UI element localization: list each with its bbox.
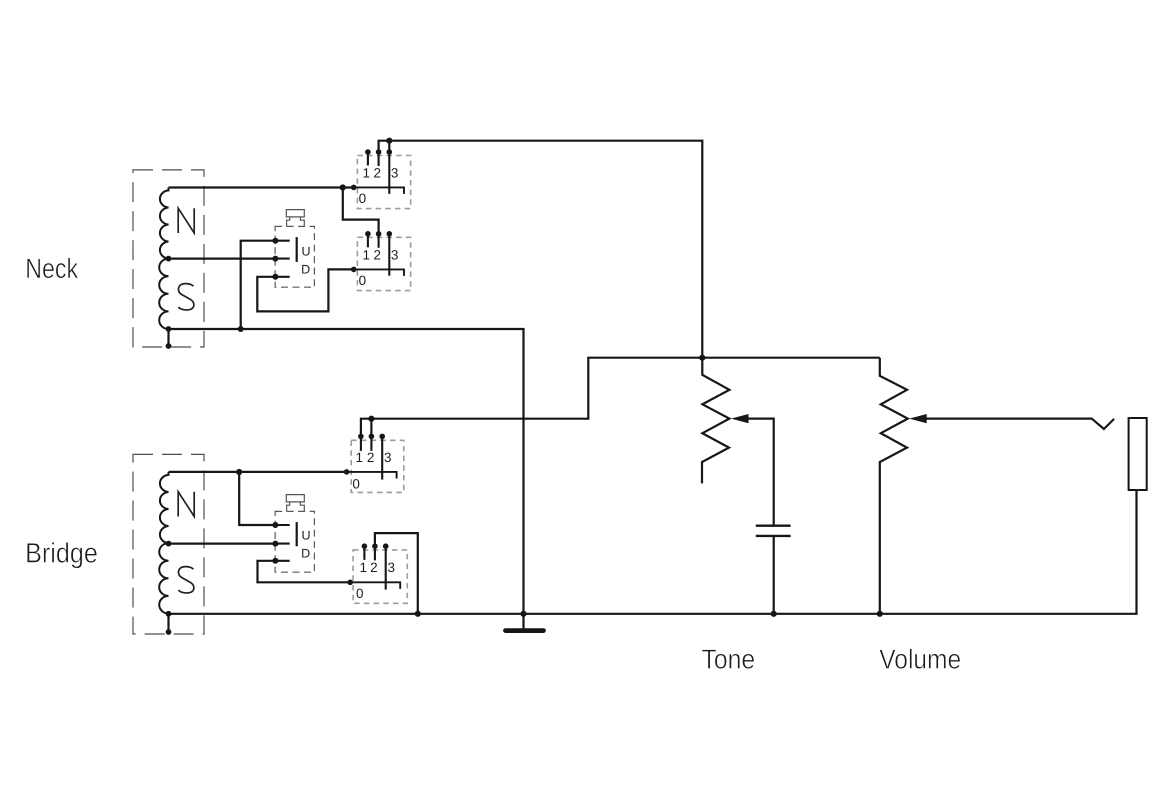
svg-text:D: D <box>301 262 310 276</box>
wire: branch from neck top junction down to switch S2 pin 2 <box>343 188 379 234</box>
svg-text:Volume: Volume <box>879 644 961 675</box>
node: junction on neck bottom rail <box>238 326 244 332</box>
potentiometer RV1 Tone (resistive element) <box>702 358 729 484</box>
node: switch S1 common terminal <box>351 185 357 191</box>
node: tone/volume signal junction <box>699 355 705 361</box>
switch S1 pin 1 <box>367 152 369 166</box>
svg-text:2: 2 <box>373 166 381 181</box>
svg-text:1: 1 <box>363 247 371 262</box>
wire: switch S4 pin 2 riser to ground bus <box>375 533 418 614</box>
switch S4 (bridge, lower 3-position) dashed enclosure <box>353 550 407 603</box>
svg-text:1: 1 <box>359 560 367 575</box>
switch S4 pin 1 <box>363 546 365 560</box>
svg-text:2: 2 <box>370 560 378 575</box>
svg-text:2: 2 <box>367 450 375 465</box>
wire: signal junction to volume pot top <box>702 357 880 359</box>
wire: ground bus (bridge bottom rail to output jack sleeve) <box>169 490 1137 614</box>
wire: neck coil centre tap to slide switch SW1 middle terminal <box>169 258 276 260</box>
potentiometer RV2 Volume (resistive element) <box>880 358 908 614</box>
wire: slide switch SW1 bottom terminal to switch S2 common <box>257 269 353 311</box>
slide switch SW2 pole bar <box>296 522 298 546</box>
wire: neck pickup shield stub <box>167 329 169 346</box>
slide switch SW2 terminal dots <box>272 522 278 528</box>
svg-text:U: U <box>301 529 310 543</box>
node: neck coil centre tap <box>166 256 172 262</box>
wire: bridge signal from switch S3 pins 1,2 to tone/volume node <box>361 419 372 437</box>
node: capacitor ground junction <box>771 611 777 617</box>
svg-text:U: U <box>301 244 310 258</box>
svg-text:1: 1 <box>355 450 363 465</box>
wire: volume wiper to output jack tip contact <box>926 419 1114 429</box>
wire: tone wiper to capacitor C1 <box>748 419 774 525</box>
switch S4 common (0) wiper line <box>350 582 400 589</box>
slide switch SW1 dashed enclosure <box>275 226 314 287</box>
node: junction neck top / branch to S2 <box>340 184 346 190</box>
node: bridge coil bottom <box>166 611 172 617</box>
node: switch S3 common terminal <box>344 469 350 475</box>
switch S1 common (0) wiper line <box>354 187 404 194</box>
label N (bridge pickup north pole) <box>178 492 194 517</box>
node: junction of S3 pin2 riser with bridge signal wire <box>368 416 374 422</box>
wire: branch from bridge top junction down to slide switch SW2 top terminal <box>239 472 275 525</box>
switch S1 (neck, upper 3-position) dashed enclosure <box>357 156 410 209</box>
slide switch SW2 dashed enclosure <box>275 511 314 572</box>
node: junction of S4 output with ground bus <box>415 611 421 617</box>
wire: switch S1 pin 3 riser <box>388 141 390 152</box>
capacitor C1 top plate <box>756 525 791 527</box>
svg-text:1: 1 <box>363 166 371 181</box>
label N (neck pickup north pole) <box>178 208 194 233</box>
wire: bridge signal run to tone/volume node <box>371 358 702 419</box>
wire: neck bottom rail to ground bus <box>169 329 524 614</box>
wire: bridge pickup top to switch S3 common <box>169 471 347 473</box>
switch S3 pin 1 <box>360 436 362 451</box>
switch S2 (neck, lower 3-position) dashed enclosure <box>357 237 410 290</box>
svg-text:0: 0 <box>352 476 360 491</box>
node: junction bridge top / branch to SW2 <box>236 469 242 475</box>
pickup PU2 coil (N and S windings) <box>159 472 168 614</box>
node: bridge pickup shield <box>166 629 172 635</box>
slide switch SW1 terminal dots <box>272 238 278 244</box>
pickup PU1 coil (N and S windings) <box>159 188 168 330</box>
svg-text:Tone: Tone <box>702 644 756 675</box>
switch S2 pin 2 <box>378 234 380 248</box>
wire: slide switch SW2 bottom terminal to switch S4 common <box>258 561 351 583</box>
potentiometer RV2 wiper arrow <box>909 414 927 423</box>
switch S3 pin 2 <box>370 436 372 451</box>
ground <box>520 611 526 617</box>
capacitor C1 bottom plate <box>756 535 791 537</box>
wire: bridge coil centre tap to slide switch SW2 middle terminal <box>169 542 276 544</box>
wire: neck signal from switch S1 pins 2,3 to tone/volume node <box>379 141 703 358</box>
wire: neck pickup top to switch S1 common <box>169 186 354 188</box>
slide switch SW1 (neck coil split) actuator cap <box>286 210 304 227</box>
svg-text:3: 3 <box>391 166 399 181</box>
potentiometer RV1 wiper arrow <box>731 414 749 423</box>
switch S2 common (0) wiper line <box>354 269 404 276</box>
wire: slide switch SW1 top terminal down to neck ground rail <box>241 241 276 329</box>
node: volume pot ground junction <box>877 611 883 617</box>
slide switch SW1 terminal stubs <box>275 241 289 277</box>
svg-text:0: 0 <box>356 586 364 601</box>
node: switch S2 common terminal <box>351 267 357 273</box>
slide switch SW2 terminal stubs <box>275 525 289 561</box>
node: neck coil bottom <box>166 326 172 332</box>
node: bridge coil centre tap <box>166 541 172 547</box>
svg-text:0: 0 <box>359 273 367 288</box>
switch S1 pin 3 <box>388 152 390 194</box>
svg-text:Neck: Neck <box>25 253 79 284</box>
switch S4 pin 3 <box>385 546 387 589</box>
svg-text:Bridge: Bridge <box>25 537 98 568</box>
slide switch SW2 (bridge coil split) actuator cap <box>286 495 304 512</box>
svg-text:3: 3 <box>384 450 392 465</box>
pickup PU2 (Bridge) dashed enclosure <box>133 454 204 634</box>
label S (neck pickup south pole) <box>178 284 193 310</box>
node: junction of S1 pin3 riser with neck signal wire <box>386 138 392 144</box>
svg-text:0: 0 <box>359 191 367 206</box>
pickup PU1 (Neck) dashed enclosure <box>133 170 204 347</box>
wire: bridge pickup shield stub <box>167 614 169 632</box>
switch S3 common (0) wiper line <box>347 472 397 479</box>
switch S4 pin 2 <box>374 546 376 560</box>
wire: capacitor C1 to ground bus <box>773 536 775 614</box>
switch S2 pin 3 <box>388 234 390 276</box>
switch S1 pin 2 <box>378 152 380 166</box>
svg-text:3: 3 <box>387 560 395 575</box>
svg-text:D: D <box>301 547 310 561</box>
node: neck pickup shield <box>166 343 172 349</box>
switch S3 pin 3 <box>381 436 383 479</box>
output jack J1 body <box>1129 418 1147 490</box>
label S (bridge pickup south pole) <box>178 567 193 593</box>
slide switch SW1 pole bar <box>296 237 298 262</box>
switch S3 (bridge, upper 3-position) dashed enclosure <box>351 440 404 492</box>
switch S2 pin 1 <box>367 234 369 248</box>
node: switch S4 common terminal <box>347 580 353 586</box>
svg-text:2: 2 <box>373 247 381 262</box>
svg-text:3: 3 <box>391 247 399 262</box>
